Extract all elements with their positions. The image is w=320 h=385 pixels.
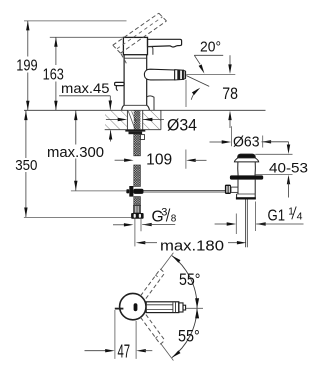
hose tail edges / extension lines [134, 219, 136, 247]
lever handle (horizontal) [148, 39, 182, 47]
dashed lever raised position [113, 13, 159, 45]
svg-text:Ø34: Ø34 [167, 117, 197, 135]
faucet body [123, 37, 147, 54]
dim hole Ø34 arrows [106, 119, 119, 121]
horizontal pop-up rod [144, 190, 231, 192]
svg-text:55°: 55° [178, 327, 200, 346]
top view: faucet body circle [120, 293, 146, 319]
swing arc [172, 256, 197, 358]
hose end thread [133, 206, 140, 213]
braided hose upper [134, 111, 141, 130]
drain neck flare [234, 158, 258, 162]
aerator [175, 70, 184, 80]
dim 350 [25, 110, 27, 158]
drain flange [230, 175, 263, 179]
dim 47 [114, 310, 116, 359]
dim 163 [50, 36, 124, 38]
pivot joint [129, 186, 133, 197]
mounting washer and nut [125, 130, 145, 132]
drain tail pipe [236, 194, 238, 199]
label G1 1/4 [215, 223, 228, 225]
braided hose middle [134, 165, 141, 186]
middle opposing arrows on arc [186, 307, 203, 309]
dim max.300 [75, 110, 77, 144]
label G3/8 [113, 224, 126, 226]
svg-text:4: 4 [297, 211, 303, 223]
svg-text:max.300: max.300 [47, 144, 104, 161]
dashed lever swung up 55 [141, 269, 161, 296]
svg-text:350: 350 [15, 157, 37, 174]
svg-text:20°: 20° [200, 38, 221, 55]
svg-text:3: 3 [161, 207, 167, 219]
braided hose below pivot [134, 197, 141, 206]
lever top view [146, 302, 179, 313]
faucet shank taper in hole [128, 111, 135, 128]
dim 40-53 [288, 142, 290, 146]
pop-up rod below drain [245, 200, 247, 248]
deck/counter cross-section [105, 111, 127, 130]
dim 109 [115, 159, 126, 161]
svg-text:max.180: max.180 [160, 237, 224, 254]
svg-text:199: 199 [16, 58, 37, 75]
dim max.180 [136, 241, 146, 244]
drain plug cap [238, 154, 256, 158]
svg-text:47: 47 [118, 342, 131, 362]
drain upper body [237, 162, 239, 176]
dim 199 [24, 20, 127, 22]
swing extension lines [161, 253, 174, 270]
dim Ø63 [210, 141, 224, 143]
svg-text:78: 78 [222, 84, 238, 103]
spout (rounded capsule) [144, 69, 174, 80]
svg-text:8: 8 [171, 213, 177, 224]
svg-text:Ø63: Ø63 [233, 134, 260, 151]
svg-text:G1: G1 [268, 207, 286, 224]
svg-text:max.45: max.45 [61, 81, 110, 96]
svg-text:55°: 55° [179, 270, 201, 289]
svg-text:109: 109 [146, 151, 172, 168]
pop-up knob stub [115, 308, 124, 310]
pop-up rod housing behind body [147, 96, 154, 110]
hose side nipple [140, 135, 144, 140]
lever slot [134, 303, 138, 311]
linkage clamp knob [225, 185, 231, 194]
pop-up drain knob on body [115, 82, 125, 85]
lever boss [148, 47, 153, 55]
G3/8 nut [131, 213, 144, 219]
svg-text:40-53: 40-53 [269, 159, 308, 175]
drain lower body [237, 180, 239, 194]
dashed lever swung down 55 [141, 317, 161, 344]
faucet base [124, 104, 147, 106]
